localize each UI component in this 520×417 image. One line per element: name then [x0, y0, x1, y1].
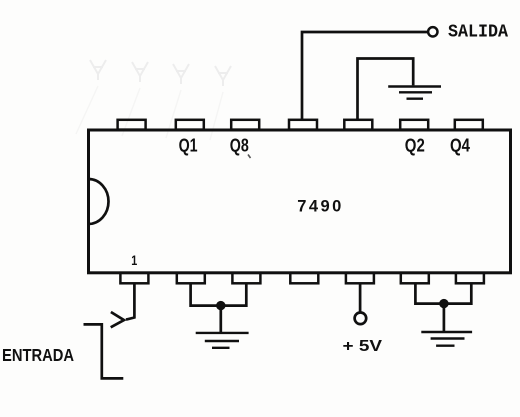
wire: pin11 up and right to SALIDA terminal [302, 32, 428, 120]
op IC body U1 7490 outline [89, 130, 511, 273]
IC notch semicircle [89, 179, 109, 224]
wire: pin10 up, right, down to ground G1 [358, 59, 414, 120]
wire: bottom pins 2+3 joined [191, 283, 247, 305]
svg-text:+ 5V: + 5V [343, 338, 383, 355]
terminal circle +5V [355, 313, 367, 325]
terminal circle SALIDA [428, 27, 437, 36]
bottom pin 5 [346, 273, 374, 284]
wire: bottom pin5 down to +5V terminal [359, 283, 362, 312]
svg-text:1: 1 [131, 252, 137, 268]
top pin 12 [231, 120, 259, 130]
svg-text:Q4: Q4 [450, 134, 471, 155]
junction dot right [439, 299, 448, 308]
bottom pin 6 [401, 273, 429, 284]
top pin 14 [118, 120, 146, 130]
wire: bottom pin1 down to input arrow [126, 283, 134, 319]
bottom pin 3 [232, 273, 260, 284]
svg-text:7490: 7490 [297, 198, 341, 216]
svg-text:Q8: Q8 [230, 134, 249, 155]
top pin 11 [289, 120, 317, 130]
wire: junction down to ground G2 [219, 306, 222, 333]
bottom pin 4 [290, 273, 318, 284]
top pin 10 [344, 120, 372, 130]
svg-text:SALIDA: SALIDA [448, 23, 508, 43]
svg-text:Q1: Q1 [179, 134, 198, 155]
svg-text:Q2: Q2 [405, 134, 425, 155]
decorative speck [248, 155, 251, 159]
svg-text:ENTRADA: ENTRADA [2, 345, 74, 365]
input arrowhead ENTRADA [111, 312, 124, 327]
ground G3 (bottom right) [421, 332, 472, 346]
bottom pin 7 [456, 273, 484, 284]
top pin 9 [400, 120, 428, 130]
faint scan ghost artifacts (decorative) [76, 60, 231, 140]
ground G1 (top) [388, 87, 441, 99]
junction dot left [216, 301, 225, 310]
wire: bottom pins 6+7 joined [415, 283, 471, 303]
wire: junction down to ground G3 [443, 304, 446, 332]
bottom pin 2 [177, 273, 205, 284]
ground G2 (bottom left) [196, 333, 249, 348]
bottom pin 1 [120, 273, 148, 284]
top pin 13 [176, 120, 204, 130]
top pin 8 [455, 120, 483, 130]
ENTRADA bracket wire [84, 324, 124, 378]
